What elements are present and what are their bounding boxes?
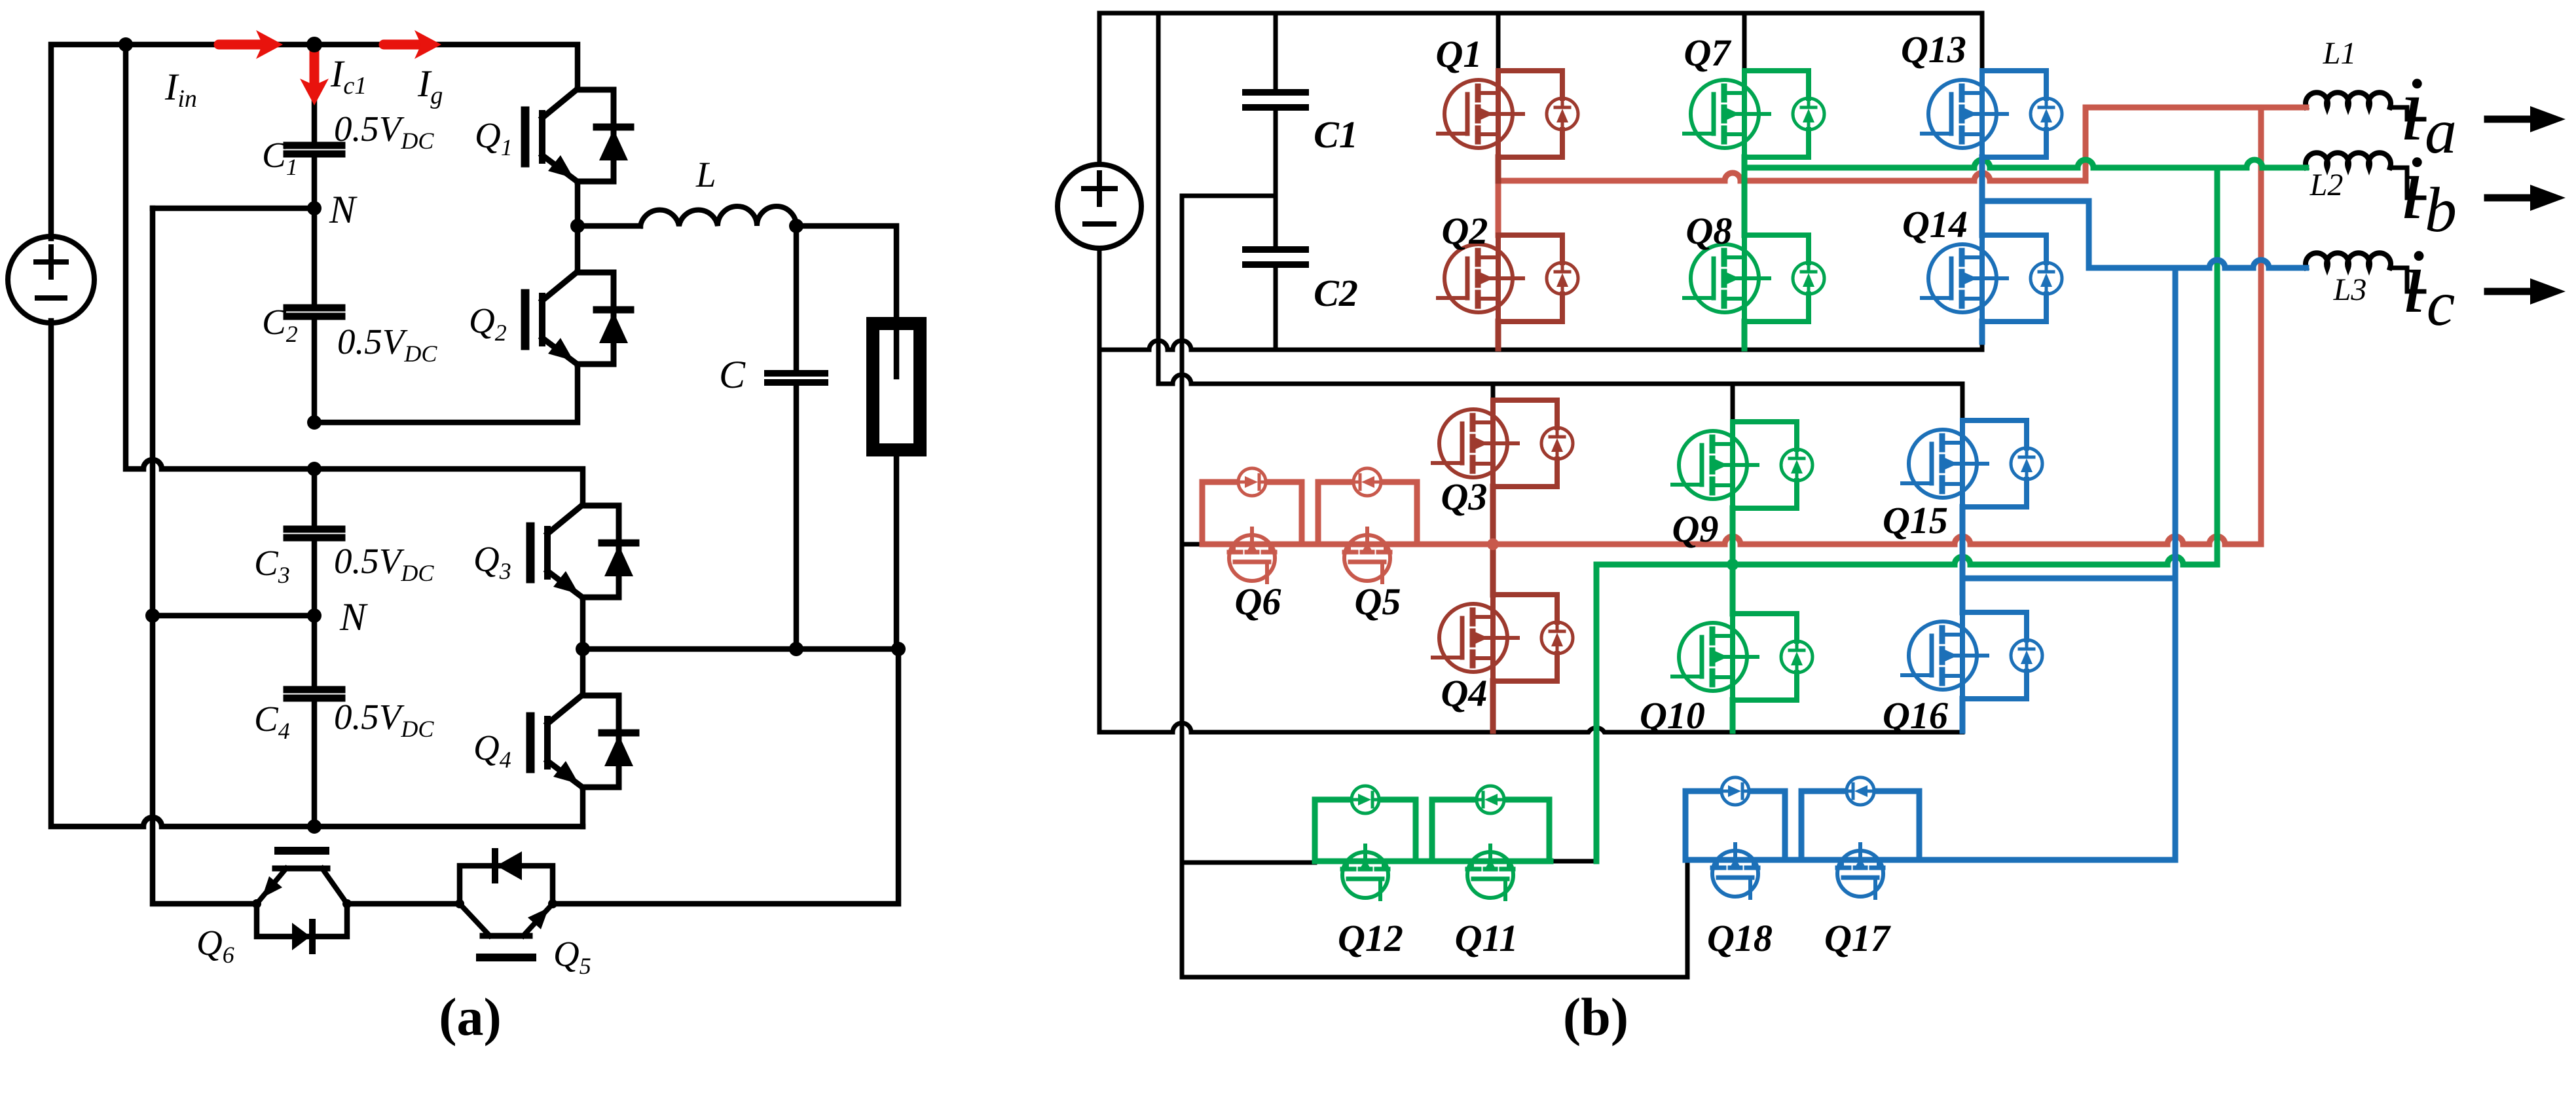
svg-text:Q10: Q10 — [1640, 694, 1705, 737]
svg-text:Q6: Q6 — [1235, 580, 1281, 623]
svg-text:Q15: Q15 — [1883, 499, 1948, 542]
svg-text:Q12: Q12 — [1338, 917, 1403, 959]
svg-text:L2: L2 — [2309, 168, 2344, 202]
svg-text:C: C — [719, 353, 746, 396]
svg-text:Q14: Q14 — [1902, 203, 1968, 246]
svg-text:(b): (b) — [1563, 987, 1628, 1047]
svg-text:N: N — [329, 188, 358, 231]
svg-text:Q11: Q11 — [1455, 917, 1518, 959]
svg-text:Q5: Q5 — [1355, 580, 1401, 623]
svg-text:N: N — [339, 595, 368, 639]
svg-text:Q9: Q9 — [1672, 508, 1719, 550]
svg-text:Q16: Q16 — [1883, 694, 1948, 737]
svg-text:Q13: Q13 — [1901, 28, 1966, 71]
svg-text:Q8: Q8 — [1686, 210, 1733, 252]
svg-text:C1: C1 — [1314, 113, 1358, 156]
svg-text:L1: L1 — [2323, 36, 2357, 71]
svg-text:L3: L3 — [2333, 272, 2367, 307]
svg-text:Q1: Q1 — [1436, 33, 1482, 75]
svg-text:Q2: Q2 — [1442, 210, 1488, 252]
svg-text:Q4: Q4 — [1441, 672, 1488, 715]
svg-text:Q18: Q18 — [1707, 917, 1773, 959]
svg-text:C2: C2 — [1314, 272, 1358, 314]
svg-text:Q3: Q3 — [1441, 475, 1488, 518]
svg-text:(a): (a) — [439, 987, 502, 1047]
svg-text:L: L — [695, 155, 716, 195]
svg-text:Q7: Q7 — [1684, 31, 1732, 74]
svg-text:Q17: Q17 — [1824, 917, 1891, 959]
